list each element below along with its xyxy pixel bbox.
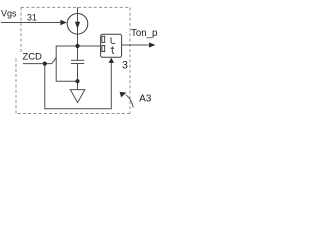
svg-text:Vgs: Vgs — [1, 8, 17, 18]
svg-text:31: 31 — [27, 12, 37, 22]
svg-text:3: 3 — [122, 59, 128, 71]
svg-text:ZCD: ZCD — [22, 52, 42, 63]
svg-text:Ton_p: Ton_p — [131, 28, 157, 39]
svg-text:A3: A3 — [139, 94, 152, 105]
